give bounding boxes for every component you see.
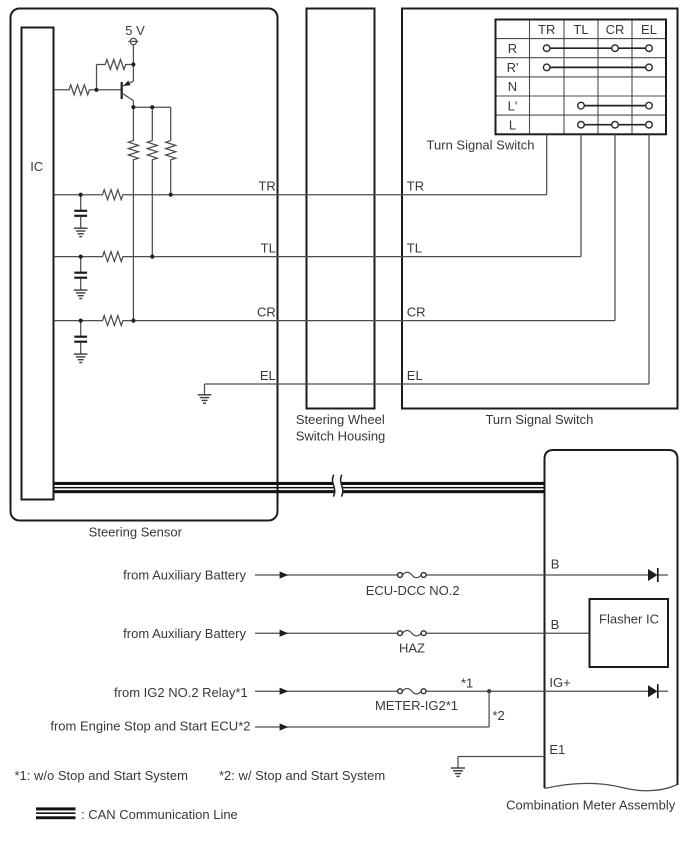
svg-text:CR: CR [407,305,426,320]
svg-text:TL: TL [573,22,588,37]
svg-text:TR: TR [258,179,275,194]
svg-text:*2: *2 [493,708,505,723]
svg-text:*1: *1 [461,676,473,691]
svg-text:HAZ: HAZ [399,640,425,655]
svg-text:EL: EL [407,368,423,383]
svg-text:TR: TR [538,22,555,37]
svg-text:from Auxiliary Battery: from Auxiliary Battery [123,568,246,583]
svg-text:*1: w/o Stop and Start System: *1: w/o Stop and Start System [15,768,188,783]
svg-text:5 V: 5 V [125,23,145,38]
svg-text:ECU-DCC NO.2: ECU-DCC NO.2 [366,583,460,598]
svg-text:R': R' [507,60,519,75]
svg-text:Combination Meter Assembly: Combination Meter Assembly [506,797,676,812]
svg-text:from IG2 NO.2 Relay*1: from IG2 NO.2 Relay*1 [114,685,248,700]
svg-text:TL: TL [407,241,422,256]
svg-text:N: N [508,79,517,94]
svg-text:METER-IG2*1: METER-IG2*1 [375,698,458,713]
svg-text:R: R [508,41,517,56]
svg-text:Turn Signal Switch: Turn Signal Switch [485,412,593,427]
svg-text:EL: EL [641,22,657,37]
svg-text:*2: w/ Stop and Start System: *2: w/ Stop and Start System [219,768,385,783]
svg-text:B: B [551,617,560,632]
svg-text:L': L' [508,98,518,113]
svg-text:from Engine Stop and Start ECU: from Engine Stop and Start ECU*2 [50,719,250,734]
svg-text:TR: TR [407,179,424,194]
svg-text:TL: TL [261,241,276,256]
svg-text:IC: IC [30,159,43,174]
svg-text:Steering Sensor: Steering Sensor [89,524,183,539]
svg-text:: CAN Communication Line: : CAN Communication Line [81,807,238,822]
svg-text:B: B [551,556,560,571]
svg-text:EL: EL [260,368,276,383]
svg-text:Turn Signal Switch: Turn Signal Switch [427,138,535,153]
svg-text:from Auxiliary Battery: from Auxiliary Battery [123,626,246,641]
svg-text:CR: CR [257,305,276,320]
svg-text:IG+: IG+ [549,675,570,690]
svg-text:Steering Wheel: Steering Wheel [296,412,385,427]
svg-text:L: L [509,117,516,132]
svg-text:CR: CR [606,22,625,37]
svg-text:E1: E1 [549,742,565,757]
svg-text:Flasher IC: Flasher IC [599,612,659,627]
svg-text:Switch Housing: Switch Housing [296,428,386,443]
